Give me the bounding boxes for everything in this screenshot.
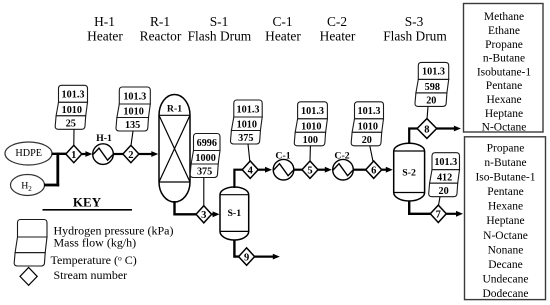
- svg-text:1000: 1000: [195, 153, 215, 164]
- svg-text:n-Butane: n-Butane: [484, 157, 526, 169]
- svg-text:S-2: S-2: [402, 167, 416, 178]
- svg-text:101.3: 101.3: [237, 104, 260, 115]
- svg-text:6: 6: [371, 166, 376, 177]
- svg-text:598: 598: [425, 82, 440, 93]
- data callout stream 3: boxes: [190, 134, 220, 178]
- svg-text:375: 375: [238, 133, 253, 144]
- svg-text:S-1: S-1: [227, 208, 241, 219]
- svg-text:101.3: 101.3: [62, 90, 85, 101]
- wire/arrow stream 2 to reactor R-1: [139, 153, 152, 155]
- heater C-1 zigzag: [274, 164, 294, 176]
- svg-text:Mass flow (kg/h): Mass flow (kg/h): [54, 235, 137, 249]
- data callout stream 2: boxes: [116, 87, 150, 131]
- svg-text:Hexane: Hexane: [486, 94, 521, 106]
- stream diamond 7 (S-2 liquid): [430, 205, 446, 222]
- svg-text:20: 20: [426, 96, 436, 107]
- svg-text:5: 5: [307, 166, 312, 177]
- svg-text:6996: 6996: [197, 138, 217, 149]
- heater C-2 circle: [333, 159, 354, 180]
- wire R-1 bottom to stream 3: [175, 201, 197, 214]
- data callout stream 4: boxes: [230, 100, 262, 144]
- vessel S-2 flash drum outline: [394, 143, 425, 201]
- svg-text:C-2: C-2: [327, 14, 347, 29]
- svg-text:KEY: KEY: [73, 194, 102, 209]
- product box top (stream 8 components): [464, 4, 544, 133]
- wire S-1 top to stream 4: [234, 170, 243, 188]
- heater H-1 zigzag: [93, 148, 113, 160]
- connector callout 1: [73, 129, 75, 145]
- svg-text:R-1: R-1: [150, 14, 170, 29]
- heater C-1 circle: [273, 159, 294, 180]
- wire C-1 to stream 5: [294, 169, 302, 171]
- wire H2 horizontal: [44, 184, 59, 187]
- wire/arrow stream 6 to S-2: [382, 169, 387, 171]
- wire/arrow stream 9 out: [255, 256, 274, 258]
- svg-text:Heater: Heater: [87, 28, 123, 43]
- data callout stream 6: boxes: [351, 102, 383, 146]
- svg-text:Propane: Propane: [485, 39, 523, 51]
- stream diamond 3 (reactor outlet): [196, 206, 212, 223]
- svg-text:375: 375: [197, 167, 212, 178]
- svg-text:7: 7: [436, 210, 441, 221]
- svg-text:S-3: S-3: [405, 14, 424, 29]
- vessel S-1 flash drum outline: [220, 187, 249, 240]
- svg-text:Flash Drum: Flash Drum: [383, 28, 447, 43]
- svg-text:HDPE: HDPE: [15, 148, 42, 159]
- svg-text:Hexane: Hexane: [488, 201, 523, 213]
- svg-text:101.3: 101.3: [358, 106, 381, 117]
- svg-text:Propane: Propane: [487, 143, 525, 155]
- svg-text:101.3: 101.3: [123, 91, 146, 102]
- svg-text:3: 3: [201, 210, 206, 221]
- svg-text:Ethane: Ethane: [488, 25, 520, 37]
- wire H-1 to stream 2: [113, 153, 123, 155]
- svg-text:2: 2: [128, 150, 133, 161]
- svg-text:101.3: 101.3: [422, 67, 445, 78]
- data callout stream 7: boxes: [429, 153, 460, 197]
- svg-text:N-Octane: N-Octane: [482, 122, 527, 134]
- wire S-2 bottom to stream 7: [409, 201, 430, 214]
- svg-text:R-1: R-1: [167, 103, 182, 114]
- wire/arrow stream 4 to heater C-1: [258, 169, 266, 171]
- svg-text:Iso-Butane-1: Iso-Butane-1: [475, 172, 535, 184]
- connector callout 5: [309, 146, 311, 161]
- svg-text:9: 9: [244, 252, 249, 263]
- svg-text:1: 1: [71, 150, 76, 161]
- wire/arrow stream 5 to heater C-2: [318, 169, 326, 171]
- svg-text:1010: 1010: [358, 122, 378, 133]
- vessel R-1 reactor outline: [159, 95, 190, 202]
- svg-text:Heater: Heater: [320, 28, 356, 43]
- svg-text:Pentane: Pentane: [487, 186, 523, 198]
- svg-text:Undecane: Undecane: [483, 273, 529, 285]
- stream diamond 5 (after C-1): [302, 161, 318, 178]
- connector callout 4: [248, 144, 250, 161]
- connector callout 7: [439, 197, 441, 206]
- svg-text:Pentane: Pentane: [486, 80, 522, 92]
- wire HDPE to stream 1: [52, 153, 67, 155]
- stream diamond 6 (after C-2): [366, 161, 382, 178]
- wire H2 vertical riser: [56, 153, 59, 187]
- svg-text:1010: 1010: [237, 120, 257, 131]
- data callout stream 1: boxes: [55, 85, 87, 129]
- svg-text:Heptane: Heptane: [485, 108, 523, 120]
- svg-text:4: 4: [248, 166, 254, 177]
- wire/arrow stream 7 to product box: [446, 213, 457, 215]
- stream diamond (legend): [20, 268, 37, 286]
- wire C-2 to stream 6: [353, 169, 366, 171]
- stream diamond 4 (S-1 vapor): [242, 161, 258, 178]
- KEY underline: [43, 209, 133, 211]
- svg-text:Temperature (o C): Temperature (o C): [51, 253, 137, 267]
- svg-text:101.3: 101.3: [434, 157, 457, 168]
- data callout stream 5: boxes: [294, 102, 327, 146]
- vessel S-2 flash drum seam lines: [394, 150, 425, 152]
- svg-text:101.3: 101.3: [301, 106, 324, 117]
- wire/arrow stream 1 to heater H-1: [82, 153, 87, 155]
- vessel R-1 reactor seam lines: [159, 114, 190, 116]
- data callout legend: boxes: [14, 220, 47, 267]
- product box bottom (stream 7 components): [465, 137, 546, 300]
- stream diamond 8 (S-2 vapor): [417, 119, 437, 139]
- wire S-2 top to stream 8: [409, 129, 417, 145]
- svg-text:25: 25: [66, 119, 76, 130]
- svg-text:H-1: H-1: [94, 14, 115, 29]
- svg-text:Heptane: Heptane: [486, 215, 524, 227]
- svg-text:Flash Drum: Flash Drum: [188, 28, 252, 43]
- svg-text:H-1: H-1: [96, 133, 112, 144]
- data callout stream 8: boxes: [415, 62, 449, 106]
- svg-text:412: 412: [437, 172, 452, 183]
- connector callout 6: [370, 146, 373, 162]
- svg-text:Isobutane-1: Isobutane-1: [477, 66, 532, 78]
- svg-text:135: 135: [125, 120, 140, 131]
- svg-text:Reactor: Reactor: [140, 28, 182, 43]
- svg-text:n-Butane: n-Butane: [483, 53, 525, 65]
- stream diamond 2 (after H-1): [123, 145, 139, 162]
- svg-text:Dodecane: Dodecane: [483, 288, 529, 300]
- wire S-1 bottom to stream 9: [234, 240, 239, 257]
- svg-text:Methane: Methane: [484, 11, 524, 23]
- svg-text:20: 20: [439, 186, 449, 197]
- svg-text:N-Octane: N-Octane: [483, 230, 528, 242]
- wire/arrow stream 3 to S-1: [212, 213, 214, 215]
- heater C-2 zigzag: [333, 164, 353, 176]
- svg-text:20: 20: [362, 135, 372, 146]
- stream diamond 9 (S-1 liquid): [239, 248, 255, 265]
- vessel R-1 reactor X packing: [159, 115, 190, 182]
- wire/arrow stream 8 to product box: [436, 127, 455, 129]
- svg-text:Heater: Heater: [265, 28, 301, 43]
- feed HDPE ellipse: [5, 142, 52, 165]
- heater H-1 circle: [93, 144, 114, 165]
- vessel S-1 flash drum seam lines: [220, 194, 249, 196]
- connector callout 8: [427, 106, 428, 119]
- svg-text:Stream number: Stream number: [54, 268, 128, 282]
- svg-text:100: 100: [303, 135, 318, 146]
- svg-text:1010: 1010: [62, 105, 82, 116]
- svg-text:1010: 1010: [123, 107, 143, 118]
- svg-text:8: 8: [424, 124, 429, 135]
- feed H2 ellipse: [11, 175, 45, 196]
- svg-text:S-1: S-1: [210, 14, 229, 29]
- svg-text:C-1: C-1: [272, 14, 292, 29]
- svg-text:1010: 1010: [301, 122, 321, 133]
- connector callout 2: [131, 131, 133, 145]
- connector callout 3: [203, 178, 205, 206]
- svg-text:Decane: Decane: [488, 259, 522, 271]
- svg-text:Nonane: Nonane: [488, 244, 524, 256]
- stream diamond 1 (feed mix): [66, 145, 82, 162]
